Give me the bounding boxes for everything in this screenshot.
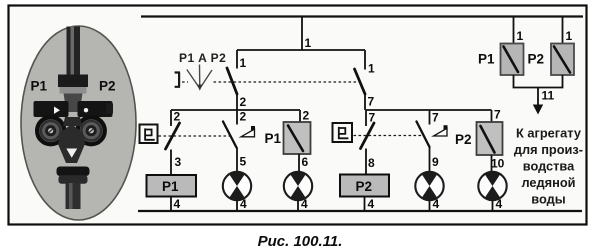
wire: riser from top bus, net 1 [237,16,365,51]
lamp H1 (net 5 to net 4) [223,148,251,212]
pipe coupling flange [58,75,88,88]
lamp H2 (net 6 to net 4) [284,154,312,211]
relay coil P2 [340,175,389,212]
svg-text:P2: P2 [455,132,472,147]
svg-text:ледяной: ледяной [521,175,575,190]
svg-text:7: 7 [432,111,439,125]
svg-text:P1: P1 [478,52,495,67]
bellows P1 [37,117,64,144]
contact B1.1 (net 2 to net 3) [166,110,182,176]
svg-text:1: 1 [240,56,247,70]
svg-text:4: 4 [174,197,181,211]
svg-text:11: 11 [542,89,555,103]
svg-text:2: 2 [240,95,247,109]
caption: figure number [258,233,343,250]
svg-text:P1: P1 [265,131,282,146]
svg-text:воды: воды [531,192,565,207]
svg-text:P2: P2 [528,52,545,67]
svg-text:2: 2 [240,110,247,124]
svg-text:2: 2 [303,109,310,123]
contact B2.1 (net 7 to net 8) [361,110,376,175]
wire: junction of P1.2/P2.2 to output, net 11 [514,75,563,105]
annotation: output destination text [514,126,583,207]
svg-text:5: 5 [240,155,247,169]
relay contact P2.2 (boxed, top right, net 1 to net 11) [528,17,575,76]
svg-text:3: 3 [175,155,182,169]
svg-text:4: 4 [433,197,440,211]
wire: drop to selector contact S2, net 1 [365,50,375,76]
svg-text:7: 7 [494,108,501,122]
svg-text:1: 1 [566,29,573,43]
pressure element B1 (square symbol, group 1) [140,125,158,144]
relay contact P1.2 (boxed, top right, net 1 to net 11) [478,17,524,76]
contact S1 (selector pole 1, net 1 to net 2) [227,68,247,110]
central body [63,117,82,126]
wire: group-1 bus, net 2 [171,110,300,124]
top suction pipe [67,27,81,76]
pressostat P1 housing [34,101,69,117]
lamp H3 (net 9 to net 4) [415,147,443,211]
wire: drop to selector contact S1, net 1 [237,50,247,70]
svg-text:4: 4 [496,197,503,211]
svg-text:1: 1 [368,62,375,76]
svg-text:Рис. 100.11.: Рис. 100.11. [258,233,343,250]
wire: top supply bus, net 1 [141,15,583,17]
mechanical link (dashed) B1 to contacts, group 1 [159,135,232,137]
wire: group-2 bus, net 7 [366,110,492,125]
relay contact P1.1 (boxed, net 2 to net 6) [265,109,311,155]
contact B2.2 with trip flag (net 7 to net 9) [417,110,448,147]
svg-text:P1: P1 [162,179,179,194]
svg-text:7: 7 [368,95,375,109]
bellows P2 [78,117,105,144]
svg-text:1: 1 [517,29,524,43]
svg-text:9: 9 [432,155,439,169]
svg-text:2: 2 [174,110,181,124]
svg-text:P2: P2 [356,179,373,194]
bottom collar [57,167,90,177]
svg-text:P1 A P2: P1 A P2 [179,51,226,65]
mechanical link (dashed) B2 to contacts, group 2 [354,135,424,137]
svg-text:К агрегату: К агрегату [516,126,582,141]
svg-text:4: 4 [368,197,375,211]
relay coil P1 [147,175,197,211]
svg-text:1: 1 [305,36,312,50]
photo inset: dual pressostat unit P1/P2 [21,26,136,220]
svg-text:P1: P1 [31,79,48,94]
pressure element B2 (square symbol, group 2) [333,123,353,142]
lamp H4 (net 10 to net 4) [478,155,506,211]
contact S2 (selector pole 2, net 1 to net 7) [355,69,375,110]
contact B1.2 with trip flag (net 2 to net 5) [223,110,255,148]
output arrow to chiller unit [533,105,543,115]
selector switch SA: positions P1-A-P2 [175,51,227,91]
relay contact P2.1 (boxed, net 7 to net 10) [455,108,503,156]
svg-text:для произ-: для произ- [514,142,583,157]
svg-text:4: 4 [240,197,247,211]
svg-text:P2: P2 [99,79,116,94]
svg-text:10: 10 [491,157,505,171]
svg-text:4: 4 [301,197,308,211]
bottom pipe [66,183,81,209]
svg-text:8: 8 [368,156,375,170]
svg-text:6: 6 [302,155,309,169]
wire: bottom return bus, net 4 [138,210,582,212]
svg-text:водства: водства [523,159,575,174]
pressostat P2 housing [78,101,113,117]
mechanical link (dashed) selector to contacts S1,S2 [182,81,359,83]
